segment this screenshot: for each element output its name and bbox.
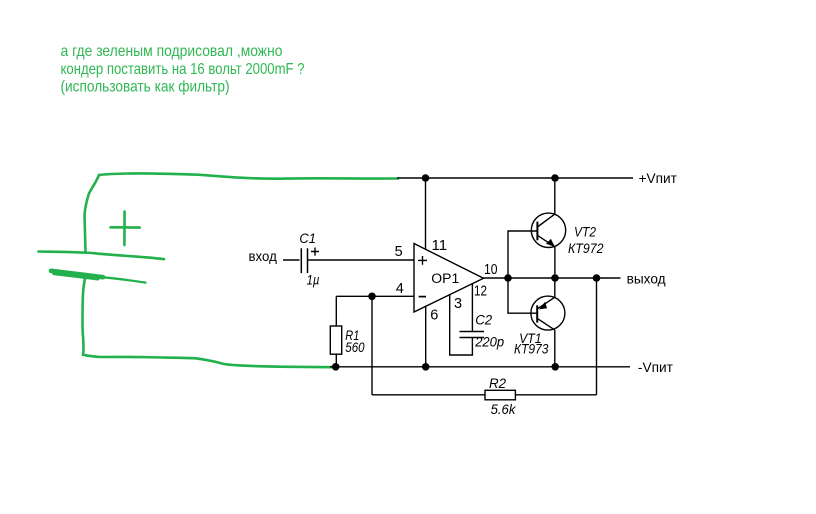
wire VT1 emitter to output node [554, 278, 556, 297]
wire pin 12 to C2 top [471, 284, 473, 332]
svg-text:VT2: VT2 [574, 225, 596, 240]
junction dot -V rail / VT1 collector [551, 363, 559, 371]
junction dot +V rail / pin 11 [422, 174, 430, 182]
green wire upper-left (plus plate lead) [85, 175, 99, 252]
junction dot -V rail / pin 6 [422, 363, 430, 371]
svg-text:C2: C2 [475, 313, 492, 328]
wire VT2 base tap [508, 231, 537, 278]
transistor VT1 circle [531, 296, 565, 330]
green polarity plus sign [111, 212, 140, 246]
transistor VT2 emitter diagonal [537, 235, 555, 247]
junction dot output / feedback [593, 274, 601, 282]
transistor VT2 base bar [536, 222, 538, 241]
transistor VT1 base bar [536, 305, 538, 322]
label C1 polarity + [311, 248, 319, 256]
wire VT1 collector to -V rail [554, 330, 556, 367]
svg-text:560: 560 [345, 340, 365, 355]
wire pin 3 down-right to C2 bottom [450, 295, 473, 356]
transistor VT2 emitter arrow [546, 239, 555, 247]
wire pin 4 (inverting input) [336, 295, 414, 297]
junction dot +V rail / VT2 collector [551, 174, 559, 182]
label op-amp + [418, 256, 427, 265]
wire VT2 collector to +V rail [554, 178, 556, 214]
svg-text:КТ973: КТ973 [514, 342, 549, 357]
wire pin11 to +V rail [425, 178, 427, 249]
transistor VT1 emitter arrow [539, 302, 547, 310]
svg-text:220p: 220p [474, 335, 504, 350]
svg-text:-Vпит: -Vпит [638, 360, 673, 375]
svg-text:выход: выход [627, 272, 666, 287]
green wire bottom (filter cap - to -V rail) [83, 355, 333, 368]
transistor VT2 circle [531, 213, 565, 247]
green wire lower-left (minus plate lead) [82, 278, 85, 355]
svg-text:+Vпит: +Vпит [639, 171, 677, 186]
svg-text:C1: C1 [299, 231, 316, 246]
svg-text:10: 10 [484, 262, 498, 278]
svg-text:(использовать как фильтр): (использовать как фильтр) [61, 79, 230, 96]
wire pin 6 to -V rail [425, 306, 427, 367]
junction dot node A (pin4/R1/R2) [368, 293, 376, 301]
wire feedback right leg up to output [596, 278, 598, 395]
svg-text:OP1: OP1 [431, 271, 459, 286]
svg-text:4: 4 [396, 281, 404, 297]
label op-amp minus [419, 296, 426, 298]
svg-text:5.6k: 5.6k [491, 402, 517, 417]
capacitor C1 plates [301, 248, 307, 273]
wire op-amp output (pin 10) to выход [484, 277, 621, 279]
wire +V rail [397, 177, 633, 179]
wire -V rail [330, 366, 630, 368]
junction dot output / base tap [504, 274, 512, 282]
capacitor C2 plates [460, 332, 485, 338]
svg-text:вход: вход [249, 249, 277, 264]
junction dot output / emitters [551, 274, 559, 282]
wire R1 bottom lead [335, 354, 337, 367]
transistor VT2 collector diagonal [537, 214, 554, 227]
wire feedback bottom right [515, 394, 596, 396]
wire input to pin 5 [283, 259, 414, 261]
op-amp OP1 triangle [414, 244, 484, 313]
svg-text:1µ: 1µ [307, 273, 320, 288]
wire feedback left leg (node A down) [371, 296, 373, 395]
svg-text:кондер поставить на 16 вольт 2: кондер поставить на 16 вольт 2000mF ? [61, 61, 305, 78]
wire VT1 base tap [508, 278, 537, 313]
svg-text:R2: R2 [489, 376, 506, 391]
green capacitor minus plate (scribbled) [51, 271, 103, 277]
svg-text:3: 3 [454, 296, 462, 312]
svg-text:6: 6 [430, 308, 438, 324]
transistor VT1 collector diagonal [537, 318, 554, 329]
junction dot -V rail / R1 [332, 363, 340, 371]
svg-text:12: 12 [474, 284, 487, 300]
svg-text:11: 11 [432, 238, 448, 254]
svg-text:а где зеленым подрисовал ,можн: а где зеленым подрисовал ,можно [61, 43, 283, 60]
svg-text:5: 5 [395, 244, 403, 260]
wire feedback bottom left [372, 394, 485, 396]
green capacitor plus plate [39, 252, 165, 260]
green wire top (filter cap + to +V rail) [99, 173, 398, 178]
transistor VT1 emitter diagonal [538, 297, 555, 308]
wire R1 top lead [335, 296, 337, 326]
resistor R2 body [485, 390, 515, 400]
resistor R1 body [330, 326, 341, 354]
svg-text:КТ972: КТ972 [568, 241, 604, 256]
wire VT2 emitter to output node [554, 247, 556, 278]
